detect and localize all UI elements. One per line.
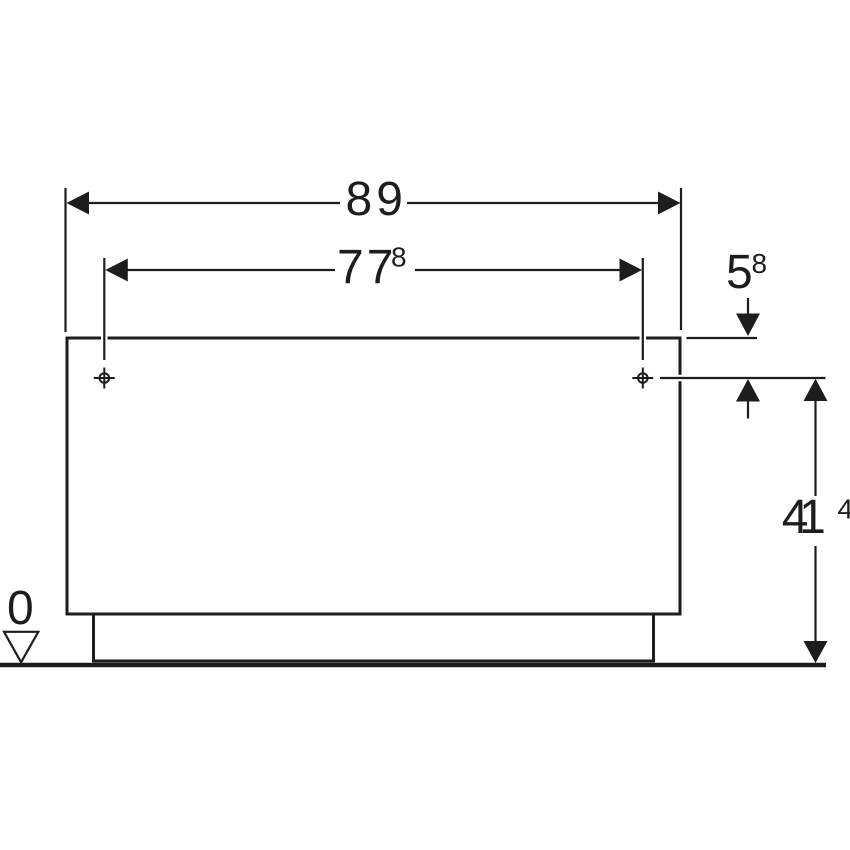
svg-text:77: 77 (337, 241, 396, 294)
svg-text:0: 0 (7, 582, 34, 635)
svg-text:89: 89 (346, 173, 407, 226)
svg-text:4: 4 (838, 494, 850, 525)
svg-text:41: 41 (782, 491, 826, 544)
svg-text:8: 8 (752, 248, 768, 279)
svg-text:5: 5 (726, 246, 753, 299)
svg-text:8: 8 (391, 242, 407, 273)
